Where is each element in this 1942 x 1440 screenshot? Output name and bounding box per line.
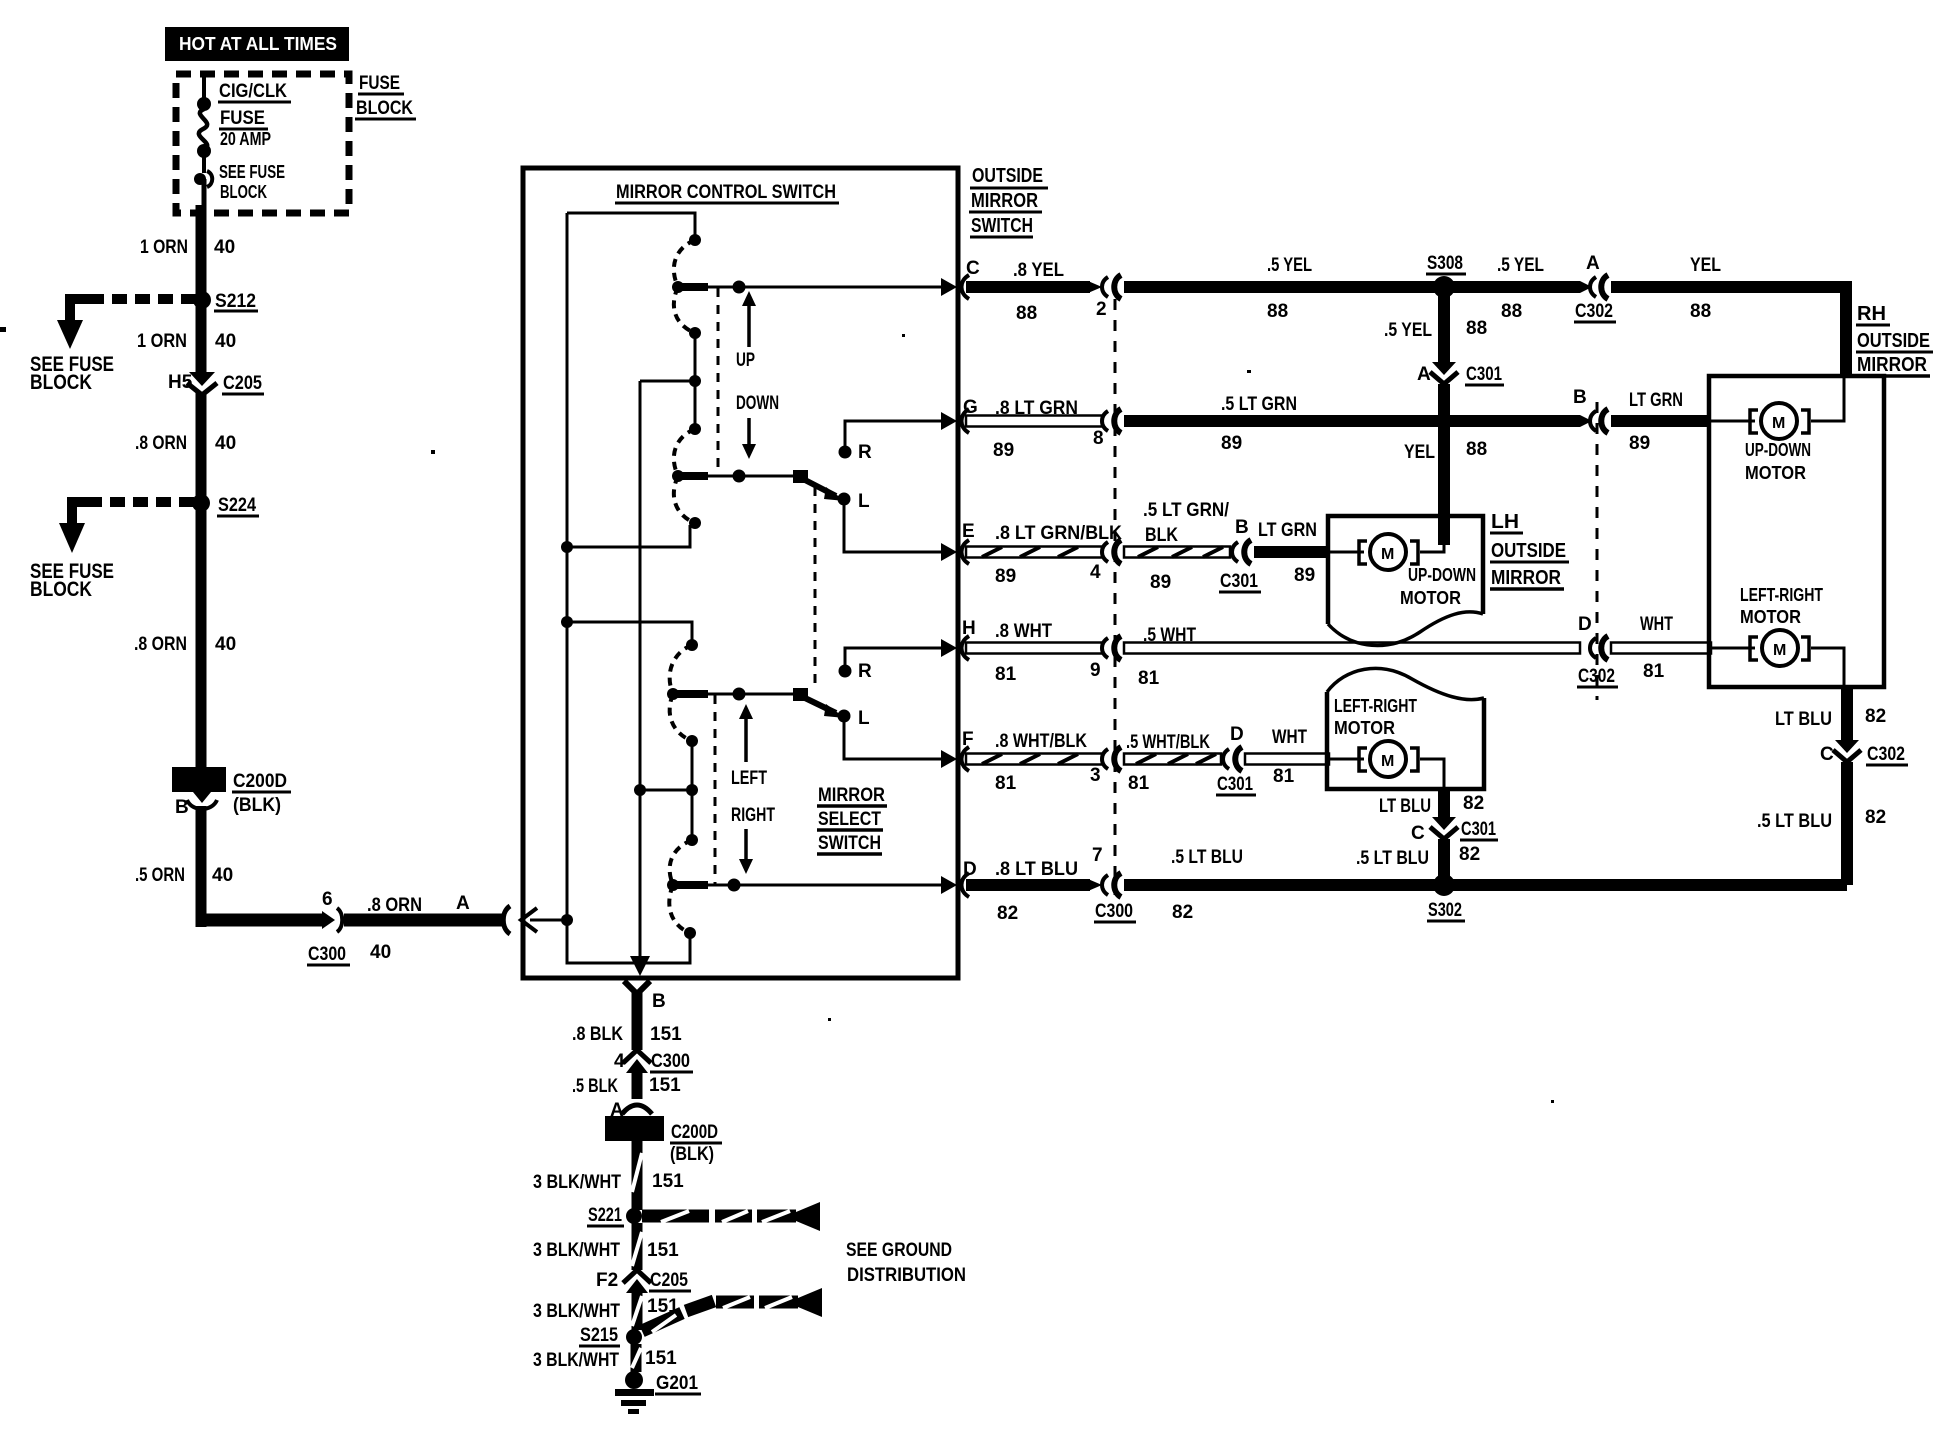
wire ground bus to upper rocker mid (640, 380, 693, 383)
svg-text:MOTOR: MOTOR (1745, 463, 1806, 483)
svg-text:81: 81 (1273, 766, 1295, 787)
wire contact C to terminal (678, 283, 708, 291)
svg-text:.5 ORN: .5 ORN (135, 865, 185, 886)
svg-text:C302: C302 (1578, 666, 1615, 687)
svg-text:C: C (1820, 744, 1834, 765)
svg-text:YEL: YEL (1690, 255, 1721, 276)
svg-text:40: 40 (215, 634, 236, 655)
wire WHT C302 to RH mirror (hollow) (1611, 643, 1711, 654)
mirror control switch box (523, 168, 958, 978)
svg-text:WHT: WHT (1272, 727, 1307, 748)
label UP-DOWN MOTOR (RH) (1745, 440, 1811, 483)
svg-text:C205: C205 (650, 1270, 688, 1291)
svg-text:81: 81 (1128, 773, 1150, 794)
label LH OUTSIDE MIRROR (1490, 511, 1569, 589)
svg-text:HOT AT ALL TIMES: HOT AT ALL TIMES (179, 34, 337, 54)
node S221 (587, 1205, 642, 1226)
connector C300 pin 6 on ORN run (307, 889, 391, 965)
svg-text:S215: S215 (580, 1325, 618, 1346)
svg-text:A: A (456, 893, 470, 914)
svg-text:40: 40 (370, 942, 391, 963)
svg-text:B: B (652, 991, 666, 1012)
svg-text:E: E (962, 521, 975, 542)
LH outside mirror up-down housing (wavy bottom) (1328, 516, 1483, 624)
svg-text:SEE FUSE: SEE FUSE (219, 162, 285, 182)
connector A at C200D (ground path) (610, 1100, 652, 1121)
RH outside mirror housing (1709, 376, 1884, 687)
svg-text:LH: LH (1491, 511, 1519, 533)
wire F .8 WHT/BLK (striped) (966, 754, 1102, 765)
svg-text:UP-DOWN: UP-DOWN (1408, 565, 1476, 585)
svg-text:MIRROR: MIRROR (1491, 567, 1561, 589)
arrow DOWN (736, 393, 779, 459)
node SEE FUSE BLOCK tap (194, 171, 212, 187)
wire fuse to tap (202, 151, 206, 173)
svg-text:C301: C301 (1461, 819, 1496, 840)
up-down rocker contacts (672, 234, 701, 529)
label HOT AT ALL TIMES (165, 27, 349, 61)
svg-text:C302: C302 (1575, 301, 1613, 322)
left-right rocker dashed arcs (669, 645, 692, 933)
svg-text:40: 40 (215, 331, 236, 352)
wire .5 LT BLU C302 to bus (1841, 762, 1853, 885)
svg-text:.5 YEL: .5 YEL (1267, 255, 1312, 276)
svg-text:.5 LT BLU: .5 LT BLU (1171, 847, 1243, 868)
arrow B terminal (down) (630, 956, 650, 976)
svg-text:SELECT: SELECT (818, 809, 881, 830)
up-down rocker solid mid segment (694, 333, 697, 429)
connector C205 H5 (168, 372, 264, 395)
svg-text:82: 82 (1865, 807, 1886, 828)
wire C .8 YEL (966, 281, 1090, 293)
wire terminal A to feed bus (530, 919, 567, 922)
svg-text:151: 151 (645, 1348, 677, 1369)
svg-text:.8 YEL: .8 YEL (1013, 260, 1064, 281)
wire S215 to ground distribution (striped diagonal) (642, 1297, 798, 1332)
svg-text:3 BLK/WHT: 3 BLK/WHT (533, 1301, 620, 1322)
svg-text:89: 89 (993, 440, 1014, 461)
wire E .8 LT GRN/BLK (striped) (966, 547, 1102, 558)
svg-text:.8 WHT/BLK: .8 WHT/BLK (995, 731, 1087, 752)
terminal F exit arc (962, 747, 970, 771)
svg-text:(BLK): (BLK) (233, 795, 281, 816)
connector C302 pin D (1577, 614, 1618, 687)
scan noise marks (0, 327, 1554, 1103)
svg-text:.5 LT GRN/: .5 LT GRN/ (1143, 500, 1230, 521)
arrow terminal F (941, 750, 957, 768)
svg-text:.5 WHT: .5 WHT (1143, 625, 1196, 646)
connector C300 pin 9 (1090, 636, 1121, 681)
svg-text:CIG/CLK: CIG/CLK (219, 81, 287, 102)
svg-text:.5 WHT/BLK: .5 WHT/BLK (1126, 732, 1210, 753)
svg-text:.8 LT BLU: .8 LT BLU (995, 859, 1078, 880)
svg-text:FUSE: FUSE (220, 108, 265, 129)
connector C302 pin B (1573, 387, 1608, 433)
svg-text:82: 82 (1865, 706, 1886, 727)
node R contact (lower select) (839, 665, 852, 678)
node fuse bottom (197, 144, 211, 158)
wire 3 BLK/WHT 151 C200D to S221 (striped) (632, 1141, 642, 1210)
mirror select switch upper arm (793, 470, 845, 501)
arrow terminal G (941, 412, 957, 430)
svg-text:SWITCH: SWITCH (971, 215, 1033, 237)
svg-text:DISTRIBUTION: DISTRIBUTION (847, 1265, 966, 1286)
arrow ground distribution (upper funnel) (796, 1202, 820, 1231)
svg-text:MOTOR: MOTOR (1334, 718, 1395, 738)
svg-text:A: A (1586, 253, 1600, 274)
connector A at mirror control switch (456, 893, 537, 934)
node junction x567 y622 (561, 616, 573, 628)
wire LT GRN C302 to RH mirror (1611, 415, 1711, 427)
label LEFT-RIGHT MOTOR (LH) (1334, 696, 1417, 738)
wire YEL C302 to RH mirror (1611, 287, 1846, 376)
svg-text:UP-DOWN: UP-DOWN (1745, 440, 1811, 460)
terminal G exit arc (962, 409, 970, 433)
wire 1 ORN 40 fuse block to S212 (196, 213, 207, 300)
ground G201 (615, 1371, 701, 1414)
wire LT BLU from LH left-right motor down (1438, 787, 1450, 818)
svg-text:89: 89 (1221, 433, 1242, 454)
node dot on lower select feed (733, 688, 746, 701)
svg-text:88: 88 (1501, 301, 1522, 322)
wire .5 LT BLU C301 to S302 (1438, 839, 1450, 885)
wire .5 WHT/BLK C300 to C301 (striped) (1124, 754, 1221, 765)
up-down rocker dashed arcs (674, 240, 695, 523)
select switch mechanical link (dashed) (814, 487, 817, 690)
label MIRROR SELECT SWITCH (817, 785, 887, 854)
wire D .8 LT BLU (966, 879, 1090, 891)
label CIG/CLK FUSE 20 AMP SEE FUSE BLOCK (218, 81, 291, 202)
left-right rocker mechanical link (dashed) (714, 695, 717, 885)
svg-text:89: 89 (1629, 433, 1650, 454)
connector C200D (BLK) ground path (605, 1116, 722, 1165)
terminal E exit arc (962, 540, 970, 564)
svg-text:88: 88 (1466, 439, 1487, 460)
svg-text:.5 LT GRN: .5 LT GRN (1221, 394, 1297, 415)
svg-text:C300: C300 (1095, 901, 1133, 922)
wire 3 BLK/WHT 151 C205 to S215 (striped) (632, 1288, 642, 1330)
label SEE GROUND DISTRIBUTION (846, 1240, 966, 1286)
svg-text:FUSE: FUSE (359, 73, 400, 94)
connector C301 pin C (vertical) (1411, 817, 1498, 844)
svg-text:BLOCK: BLOCK (30, 578, 92, 601)
terminal D exit arc (962, 873, 970, 897)
wire contact (upper select feed) (678, 472, 708, 480)
arrow terminal H (941, 639, 957, 657)
svg-text:88: 88 (1690, 301, 1711, 322)
wire dashed to fuse block (S212 branch) (88, 294, 196, 304)
svg-text:C: C (1411, 823, 1425, 844)
svg-text:D: D (1230, 724, 1244, 745)
svg-text:.8 ORN: .8 ORN (367, 895, 422, 916)
svg-text:C300: C300 (308, 944, 346, 965)
motor M RH left-right (1750, 630, 1809, 666)
svg-text:R: R (858, 661, 872, 682)
arrow SEE FUSE BLOCK (lower) (30, 502, 114, 601)
wire .5 LT GRN C300 to C302 (1124, 415, 1580, 427)
svg-text:81: 81 (995, 773, 1017, 794)
svg-text:RH: RH (1857, 303, 1886, 325)
node R contact (upper select) (839, 446, 852, 459)
fuse CIG/CLK 20A (squiggle symbol) (199, 109, 207, 149)
svg-text:C300: C300 (651, 1051, 690, 1072)
svg-text:.5 YEL: .5 YEL (1497, 255, 1544, 276)
node dot on D wire (728, 879, 741, 892)
mirror select switch lower arm (793, 688, 845, 718)
svg-text:M: M (1381, 753, 1394, 770)
svg-text:WHT: WHT (1640, 614, 1673, 635)
svg-text:C301: C301 (1220, 571, 1258, 592)
svg-text:3 BLK/WHT: 3 BLK/WHT (533, 1172, 621, 1193)
svg-text:R: R (858, 442, 872, 463)
connector C301 pin D (1216, 724, 1256, 795)
wire 3 BLK/WHT 151 S221 to C205 (striped) (632, 1223, 642, 1270)
svg-text:S302: S302 (1428, 900, 1462, 921)
svg-text:81: 81 (995, 664, 1017, 685)
svg-text:MIRROR CONTROL SWITCH: MIRROR CONTROL SWITCH (616, 182, 836, 203)
motor M LH up-down (1359, 534, 1418, 570)
svg-text:.8 ORN: .8 ORN (134, 634, 187, 655)
connector C301 pin A (vertical) (1417, 362, 1504, 385)
wire WHT C301 to LH left-right motor (hollow) (1245, 754, 1329, 765)
svg-text:A: A (1417, 364, 1431, 385)
svg-text:151: 151 (652, 1171, 684, 1192)
wire .5 YEL C300 to S308 to C302 (1124, 281, 1580, 293)
svg-text:D: D (1578, 614, 1592, 635)
svg-text:2: 2 (1096, 299, 1107, 320)
svg-text:.5 BLK: .5 BLK (572, 1076, 618, 1097)
svg-text:81: 81 (1138, 668, 1160, 689)
connector C300 pin 4 (ground path) (614, 1050, 693, 1073)
svg-text:.8 BLK: .8 BLK (572, 1024, 623, 1045)
svg-text:1 ORN: 1 ORN (140, 237, 188, 258)
svg-text:151: 151 (650, 1024, 682, 1045)
wire dashed to fuse block (S224 branch) (90, 497, 194, 507)
up-down rocker mechanical link (dashed) (717, 288, 720, 476)
svg-text:3 BLK/WHT: 3 BLK/WHT (533, 1240, 620, 1261)
arrow ground distribution (lower funnel) (798, 1288, 822, 1317)
svg-text:L: L (858, 708, 870, 729)
svg-text:(BLK): (BLK) (670, 1144, 714, 1165)
wire .8 ORN 40 C205 to S224 (196, 393, 207, 503)
svg-text:F2: F2 (596, 1270, 618, 1291)
svg-text:.8 LT GRN: .8 LT GRN (995, 398, 1078, 419)
wire .8 ORN C300 to A (344, 914, 502, 927)
wire .5 LT GRN/BLK C300 to C301 (striped) (1124, 547, 1230, 558)
svg-text:89: 89 (995, 566, 1016, 587)
svg-text:C200D: C200D (233, 771, 287, 792)
svg-text:BLOCK: BLOCK (356, 98, 413, 119)
svg-text:C205: C205 (223, 373, 262, 394)
svg-text:82: 82 (1172, 902, 1193, 923)
svg-text:MIRROR: MIRROR (1857, 354, 1927, 376)
svg-text:M: M (1772, 415, 1785, 432)
svg-text:BLOCK: BLOCK (30, 371, 92, 394)
node dot on select feed (733, 470, 746, 483)
wire contact (lower select feed) (673, 690, 708, 698)
svg-text:1 ORN: 1 ORN (137, 331, 187, 352)
svg-text:.8 ORN: .8 ORN (135, 433, 187, 454)
node S308 (1426, 253, 1466, 298)
svg-text:82: 82 (1459, 844, 1480, 865)
node junction x567 y915 (561, 914, 573, 926)
wire H .8 WHT (hollow) (966, 643, 1102, 654)
svg-text:OUTSIDE: OUTSIDE (972, 165, 1043, 187)
svg-text:S308: S308 (1427, 253, 1463, 274)
svg-text:S224: S224 (218, 495, 256, 516)
svg-text:OUTSIDE: OUTSIDE (1857, 330, 1930, 352)
svg-text:S212: S212 (215, 291, 256, 312)
label LEFT-RIGHT MOTOR (RH) (1740, 585, 1823, 627)
connector C302 dashed body (1596, 402, 1599, 700)
wire .5 YEL S308 down to C301 (1438, 287, 1450, 362)
fuse block dashed box (176, 74, 349, 213)
svg-text:.5 YEL: .5 YEL (1384, 320, 1432, 341)
wire feed to upper rocker bottom (567, 525, 690, 547)
label MIRROR CONTROL SWITCH (615, 182, 839, 203)
svg-text:BLK: BLK (1145, 525, 1178, 546)
connector C301 pin B (1219, 517, 1261, 592)
svg-text:6: 6 (322, 889, 333, 910)
node junction x567 y547 (561, 541, 573, 553)
connector C300 pin 4 (1090, 540, 1121, 583)
node S302 (1427, 874, 1465, 921)
svg-text:LT GRN: LT GRN (1258, 520, 1317, 541)
svg-text:MOTOR: MOTOR (1740, 607, 1801, 627)
connector C302 pin C (vertical) (1820, 740, 1908, 765)
node S212 (193, 291, 258, 312)
svg-text:B: B (175, 797, 189, 818)
svg-text:BLOCK: BLOCK (220, 182, 267, 202)
svg-text:DOWN: DOWN (736, 393, 779, 414)
wire .8 ORN 40 S224 to C200D (196, 503, 207, 767)
svg-text:C302: C302 (1867, 744, 1905, 765)
terminal C exit arc (962, 275, 970, 299)
svg-text:LEFT-RIGHT: LEFT-RIGHT (1740, 585, 1823, 605)
left-right rocker solid mid segment (691, 741, 694, 840)
node S224 (192, 494, 259, 516)
arrow terminal C (941, 278, 957, 296)
arrow terminal E (941, 543, 957, 561)
label OUTSIDE MIRROR SWITCH (969, 165, 1048, 237)
svg-text:YEL: YEL (1404, 442, 1435, 463)
wire .8 BLK 151 (632, 991, 643, 1050)
svg-text:L: L (858, 491, 870, 512)
svg-text:40: 40 (215, 433, 236, 454)
connector C300 pin 2 (1096, 275, 1121, 320)
connector C200D (BLK) pin B (172, 767, 291, 818)
wire contact D row to terminal (673, 881, 708, 889)
arrow SEE FUSE BLOCK (upper) (30, 299, 114, 394)
connector C300 pin 8 (1093, 409, 1121, 449)
wire inside RH box to up-down motor (1711, 378, 1844, 421)
label FUSE BLOCK (355, 73, 416, 119)
svg-text:9: 9 (1090, 660, 1101, 681)
wire inside RH box to left-right motor (1711, 648, 1844, 685)
svg-text:3 BLK/WHT: 3 BLK/WHT (533, 1350, 619, 1371)
wire 1 ORN 40 S212 to C205 (196, 300, 207, 372)
connector C300 dashed body (1114, 278, 1117, 895)
svg-text:H5: H5 (168, 372, 193, 393)
wire .5 ORN 40 C200D to elbow (196, 806, 207, 927)
svg-text:40: 40 (212, 865, 233, 886)
svg-text:.8 WHT: .8 WHT (995, 621, 1052, 642)
connector C302 pin A (1574, 253, 1616, 322)
connector C300 pin 7 (1092, 845, 1136, 922)
wire ground bus inner (to B) (639, 381, 642, 960)
svg-text:MIRROR: MIRROR (971, 190, 1038, 212)
svg-text:LT BLU: LT BLU (1775, 709, 1832, 730)
svg-text:151: 151 (647, 1240, 679, 1261)
wire R to terminal G (845, 421, 944, 452)
svg-text:40: 40 (214, 237, 235, 258)
svg-text:88: 88 (1466, 318, 1487, 339)
svg-text:89: 89 (1294, 565, 1315, 586)
svg-text:M: M (1773, 642, 1786, 659)
svg-text:LT BLU: LT BLU (1379, 796, 1431, 817)
wire R to terminal H (845, 648, 944, 671)
svg-text:.5 LT BLU: .5 LT BLU (1356, 848, 1429, 869)
svg-text:20 AMP: 20 AMP (220, 129, 271, 149)
arrow terminal D (941, 876, 957, 894)
svg-text:UP: UP (736, 350, 755, 371)
svg-text:MOTOR: MOTOR (1400, 588, 1461, 608)
svg-text:.5 LT BLU: .5 LT BLU (1757, 811, 1832, 832)
arrow LEFT (731, 704, 767, 789)
arrow UP (736, 291, 756, 371)
wire feed to lower rocker top (567, 622, 692, 647)
svg-text:.8 LT GRN/BLK: .8 LT GRN/BLK (995, 523, 1122, 544)
wire ground bus to lower rocker mid (640, 789, 692, 792)
node junction x640 y790 (634, 784, 646, 796)
svg-text:81: 81 (1643, 661, 1665, 682)
svg-text:M: M (1381, 546, 1394, 563)
svg-text:C301: C301 (1466, 364, 1502, 385)
svg-text:RIGHT: RIGHT (731, 805, 775, 826)
wire inside LH box to up-down motor (1330, 545, 1444, 552)
wire 3 BLK/WHT 151 S215 to G201 (striped) (632, 1344, 641, 1372)
svg-text:SEE GROUND: SEE GROUND (846, 1240, 952, 1261)
svg-text:8: 8 (1093, 428, 1104, 449)
svg-text:MIRROR: MIRROR (818, 785, 885, 806)
svg-text:B: B (1573, 387, 1587, 408)
node S215 (579, 1325, 642, 1346)
node L contact (upper select) (838, 493, 851, 506)
wire LT GRN C301 to LH up-down motor (1254, 546, 1330, 558)
motor M LH left-right (1359, 741, 1418, 777)
svg-text:82: 82 (997, 903, 1018, 924)
node L contact (lower select) (838, 710, 851, 723)
node fuse top (197, 97, 211, 111)
svg-text:C301: C301 (1217, 774, 1253, 795)
wire tap to fuse block bottom (202, 179, 207, 205)
wire LT BLU from RH left-right motor down (1841, 687, 1853, 741)
node dot on C wire (733, 281, 746, 294)
svg-text:88: 88 (1016, 303, 1037, 324)
label RH OUTSIDE MIRROR (1856, 303, 1933, 376)
terminal H exit arc (962, 636, 970, 660)
svg-text:82: 82 (1463, 793, 1484, 814)
svg-text:151: 151 (649, 1075, 681, 1096)
svg-text:S221: S221 (588, 1205, 622, 1226)
svg-text:LEFT-RIGHT: LEFT-RIGHT (1334, 696, 1417, 716)
svg-text:LEFT: LEFT (731, 768, 767, 789)
svg-text:SWITCH: SWITCH (818, 833, 881, 854)
wire L to terminal E (844, 499, 944, 552)
svg-text:C200D: C200D (671, 1122, 718, 1143)
svg-text:B: B (1235, 517, 1249, 538)
svg-text:88: 88 (1267, 301, 1288, 322)
